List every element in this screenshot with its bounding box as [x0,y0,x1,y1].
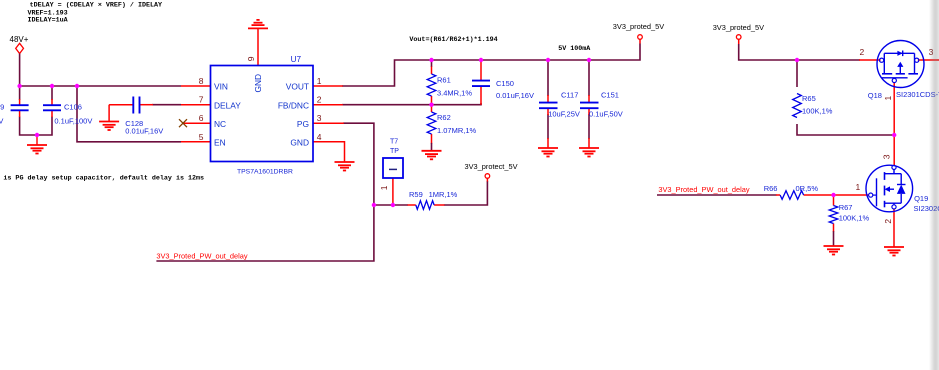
svg-text:1: 1 [856,182,861,192]
Q19 gate wire [834,194,869,196]
svg-text:R61: R61 [437,75,451,84]
capacitor C106 leads [51,99,53,105]
svg-text:5: 5 [199,132,204,142]
svg-text:VOUT: VOUT [286,82,309,92]
U7 pin 1 stub [313,85,343,87]
U7 pin 9 stub [257,28,259,65]
junction dots [17,84,21,88]
svg-text:C109: C109 [0,103,4,112]
resistor R67 leads [833,195,835,206]
U7 pin 2 stub [313,104,343,106]
svg-text:3V3_proted_5V: 3V3_proted_5V [713,23,764,32]
svg-text:3: 3 [317,113,322,123]
svg-text:0.1uF,100V: 0.1uF,100V [54,117,92,126]
capacitor C128 leads + ground drop [109,104,133,106]
resistor R66 body [780,191,804,200]
wire FB node [342,104,482,106]
svg-text:2: 2 [860,47,865,57]
transistor Q19 [866,165,913,212]
ground (C151) [579,147,599,149]
resistor R61 body [427,74,436,96]
U7 pin 6 stub [182,122,211,124]
svg-text:NC: NC [214,119,226,129]
resistor R62 body [427,112,436,134]
capacitor C117 leads + ground stem [547,95,549,103]
testpoint T7 box [383,158,403,178]
svg-text:0.1uF,100V: 0.1uF,100V [0,117,3,126]
ground (input caps) [36,135,38,145]
3V3_proted_5V flag stem (left) [639,39,641,43]
resistor R59 leads [408,204,416,206]
capacitor C109 leads [19,99,21,105]
wire C117 lower [547,114,549,139]
svg-text:8: 8 [199,76,204,86]
ground (U7 pin 9, inverted) [248,27,268,29]
svg-text:1: 1 [883,96,893,101]
resistor R59 body [416,201,434,210]
resistor R65 body [793,94,802,118]
svg-text:GND: GND [253,74,263,93]
U7 pin 3 stub [313,122,344,124]
svg-text:3V3_protect_5V: 3V3_protect_5V [465,162,518,171]
svg-text:10uF,25V: 10uF,25V [548,109,580,118]
svg-text:3V3_Proted_PW_out_delay: 3V3_Proted_PW_out_delay [658,185,750,194]
svg-text:R67: R67 [839,203,853,212]
svg-text:100K,1%: 100K,1% [802,106,833,115]
resistor R62 leads [431,105,433,112]
wire EN branch [77,85,181,142]
Q18 drain wire [918,59,939,61]
svg-text:TPS7A1601DRBR: TPS7A1601DRBR [237,169,293,176]
wire C150 drop [480,103,482,105]
U7 pin 8 stub [181,85,211,87]
svg-text:1.07MR,1%: 1.07MR,1% [437,126,477,135]
wire R59 to 3V3_protect_5V flag [444,181,488,205]
capacitor C109 (partially cut at left edge) [11,104,29,106]
svg-text:tDELAY = (CDELAY × VREF) / IDE: tDELAY = (CDELAY × VREF) / IDELAY [30,1,162,9]
Q18 source wire [859,59,881,61]
op-amp U7 body (TPS7A1601 regulator box) [211,66,314,162]
resistor R61 leads [431,67,433,75]
svg-text:1: 1 [379,185,389,190]
svg-text:3V3_Proted_PW_out_delay: 3V3_Proted_PW_out_delay [156,252,248,261]
wire cap bottoms [20,117,52,136]
svg-text:0.01uF,16V: 0.01uF,16V [496,91,534,100]
svg-text:R65: R65 [802,94,816,103]
48V+ power connector [16,43,24,53]
svg-text:C117: C117 [561,90,578,99]
svg-text:2: 2 [883,219,893,224]
capacitor C117 [539,102,558,104]
svg-text:100K,1%: 100K,1% [839,214,870,223]
capacitor C151 [580,102,599,104]
svg-text:GND: GND [290,137,309,147]
svg-text:3V3_proted_5V: 3V3_proted_5V [613,22,664,31]
svg-text:TP: TP [390,148,399,155]
no-connect X on U7 pin 6 [179,119,187,127]
svg-text:1: 1 [317,76,322,86]
Q18 gate to Q19 drain wire [893,83,895,166]
wire R61 top [431,60,433,67]
ground (R67) [824,245,844,247]
svg-text:4: 4 [317,132,322,142]
svg-text:C151: C151 [601,90,619,99]
ground (C117) [538,147,558,149]
svg-text:6: 6 [199,113,204,123]
testpoint T7 stem [392,178,394,205]
wire R65 top [796,60,798,87]
wire C109 top [19,86,21,100]
resistor R67 body [829,206,838,224]
U7 pin 4 stub to ground [313,142,345,162]
Q19 source to ground wire [893,209,895,247]
ground (Q19 source) [884,246,904,248]
svg-text:48V+: 48V+ [10,35,29,44]
ground (C128) [99,121,119,123]
svg-text:R59: R59 [409,190,423,199]
svg-text:is PG delay setup capacitor, d: is PG delay setup capacitor, default del… [3,175,204,183]
svg-text:VIN: VIN [214,82,228,92]
resistor R66 leads [776,194,780,196]
svg-text:0R,5%: 0R,5% [796,184,819,193]
wire PG down to delay rail [156,123,374,261]
svg-text:R66: R66 [764,184,778,193]
wire right 5V rail [739,44,860,60]
capacitor C128 [132,97,134,114]
svg-text:FB/DNC: FB/DNC [278,100,309,110]
svg-text:DELAY: DELAY [214,100,241,110]
svg-text:PG: PG [297,119,309,129]
wire C151 riser [588,60,590,96]
node 3V3_proted_5V flag (left) [638,35,643,40]
svg-text:7: 7 [199,95,204,105]
svg-text:R62: R62 [437,113,451,122]
wire DELAY segment [152,104,181,106]
svg-text:Vout=(R61/R62+1)*1.194: Vout=(R61/R62+1)*1.194 [409,36,497,44]
svg-text:Q18: Q18 [868,91,882,100]
transistor Q18 [877,41,924,88]
wire PW_out_delay rail right [657,194,777,196]
svg-text:9: 9 [246,56,256,61]
svg-text:C106: C106 [64,103,82,112]
svg-text:1MR,1%: 1MR,1% [429,190,458,199]
wire R65 bottom to gate net [797,124,894,135]
U7 pin 7 stub [181,104,211,106]
ground (R62) [422,150,442,152]
svg-text:3: 3 [882,154,892,159]
svg-text:T7: T7 [390,138,398,145]
capacitor C151 leads + ground stem [588,95,590,103]
3V3_proted_5V flag stem (right) [738,39,740,44]
svg-text:2: 2 [317,95,322,105]
capacitor C150 leads [480,60,482,81]
wire PG to R59 [374,204,408,206]
wire main VIN bus [19,85,181,87]
ground (U7 pin 4) [335,161,355,163]
capacitor C106 [43,104,61,106]
svg-text:IDELAY=1uA: IDELAY=1uA [28,17,69,25]
3V3_protect_5V flag stem [486,178,488,181]
svg-text:U7: U7 [291,55,302,64]
node 3V3_protect_5V flag (middle) [485,174,490,179]
wire C117 riser [547,60,549,96]
capacitor C150 [472,80,490,82]
svg-text:EN: EN [214,137,226,147]
wire C106 top [51,86,53,100]
svg-text:Q19: Q19 [914,194,928,203]
wire C151 lower [588,114,590,139]
svg-text:C150: C150 [496,79,514,88]
node 3V3_proted_5V flag (right) [736,35,741,40]
svg-text:0.1uF,50V: 0.1uF,50V [589,109,623,118]
wire VOUT to 5V bus [342,44,640,87]
U7 pin 5 stub [181,141,211,143]
svg-text:5V 100mA: 5V 100mA [558,45,591,53]
wire 48V+ down to bus [19,54,21,87]
svg-text:0.01uF,16V: 0.01uF,16V [125,126,163,135]
svg-text:3.4MR,1%: 3.4MR,1% [437,88,472,97]
